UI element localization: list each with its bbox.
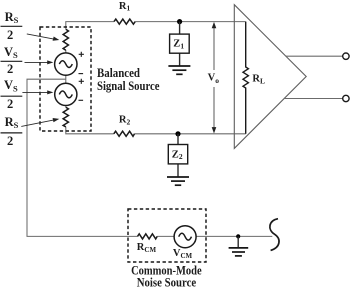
svg-text:2: 2 [7, 134, 13, 148]
source VS/2 (upper) [55, 53, 77, 75]
resistor RL (vertical) [243, 22, 248, 134]
svg-text:2: 2 [7, 62, 13, 76]
wire source internal stubs [65, 50, 67, 107]
node at Z1 tap [177, 19, 182, 24]
wire output upper [286, 55, 343, 57]
svg-text:Signal Source: Signal Source [97, 78, 160, 93]
node at chassis ground [236, 234, 240, 238]
squiggle (noise coupling path) [270, 219, 279, 251]
resistor RS/2 (upper half, vertical) [63, 29, 68, 50]
resistor RCM (horizontal) [138, 234, 158, 239]
amplifier (triangle) [234, 5, 306, 149]
wire center tap to common-mode rail [27, 79, 272, 236]
wire Z1 stub [179, 22, 181, 66]
ground (chassis, bottom) [229, 248, 249, 256]
polarity - of upper VS/2 [79, 73, 84, 75]
pointer arrow VS/2 lower [22, 91, 49, 93]
svg-text:2: 2 [7, 97, 13, 111]
pointer arrow VS/2 upper [25, 61, 50, 63]
ground (below Z1) [168, 66, 190, 74]
ground (below Z2) [167, 177, 189, 185]
resistor R2 (horizontal) [114, 131, 135, 136]
terminal lower (circle) [343, 95, 349, 101]
impedance Z2 (box) [168, 145, 187, 164]
pointer arrow RS/2 top [27, 34, 56, 40]
wire Z2 stub [177, 134, 179, 177]
source VS/2 (lower) [55, 83, 77, 105]
polarity + of upper VS/2 [79, 52, 84, 57]
wire top rail (R1 net to amplifier input) [66, 22, 246, 30]
node at Z2 tap [175, 131, 180, 136]
wire bottom rail (R2 net to amplifier input) [66, 127, 246, 134]
pointer arrow RS/2 bottom [21, 120, 56, 127]
terminal upper (circle) [343, 53, 349, 59]
polarity + of lower VS/2 [79, 79, 84, 84]
svg-text:Noise Source: Noise Source [137, 274, 197, 289]
svg-text:2: 2 [7, 28, 13, 42]
dashed box: Balanced Signal Source [40, 27, 91, 131]
wire ground stub [237, 236, 239, 247]
wire output lower [284, 98, 343, 100]
polarity - of lower VS/2 [79, 99, 84, 101]
source VCM (circle) [174, 226, 196, 248]
impedance Z1 (box) [170, 34, 190, 53]
resistor R1 (horizontal) [114, 19, 135, 24]
dashed box: Common-Mode Noise Source [128, 209, 206, 262]
resistor RS/2 (lower half, vertical) [63, 107, 68, 127]
measurement arrow Vo (double headed) [213, 24, 215, 131]
